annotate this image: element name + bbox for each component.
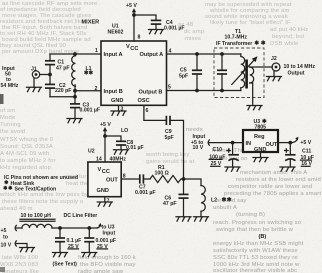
U2 labels [97, 167, 119, 194]
svg-text:+5 V: +5 V [100, 122, 111, 128]
svg-text:7: 7 [107, 199, 110, 205]
svg-text:A 4M-SCL 09 with: A 4M-SCL 09 with [0, 151, 49, 157]
svg-text:Input: Input [103, 231, 116, 237]
svg-text:energy kHz than MHz SSB might: energy kHz than MHz SSB might [213, 241, 304, 247]
svg-text:of sm: of sm [0, 108, 15, 114]
svg-text:ahead 40 m: ahead 40 m [0, 206, 33, 212]
input terminal hook [208, 140, 209, 145]
svg-text:10.7-MHz: 10.7-MHz [225, 35, 248, 41]
ground under C11 [280, 167, 295, 171]
connector J2 [271, 56, 280, 71]
pin 7 ground U2 [97, 197, 112, 207]
svg-text:J2: J2 [271, 56, 277, 62]
svg-text:10 to 100 µH: 10 to 100 µH [21, 213, 52, 219]
connector J1 [31, 67, 40, 79]
wire J1 to node [40, 74, 50, 76]
svg-text:field enough to 160 k: field enough to 160 k [78, 255, 136, 261]
svg-text:Input B: Input B [104, 89, 123, 95]
svg-text:+5: +5 [1, 228, 7, 234]
svg-text:likely tune for "blast effect": likely tune for "blast effect" IF [210, 20, 291, 26]
IC U1 NE602 designator [108, 24, 124, 36]
node filter C2 [87, 226, 91, 230]
capacitor C9 [165, 117, 174, 141]
svg-text:OSC: OSC [138, 98, 150, 104]
T1 tuning arrow [232, 56, 258, 84]
ground under C6 [176, 217, 191, 221]
svg-text:47 pF: 47 pF [163, 201, 177, 207]
filter output arrow to U3 input [97, 223, 115, 237]
ground under C4 [149, 30, 164, 34]
ground under J1 [27, 78, 42, 91]
pin 3 ground [111, 105, 126, 115]
ground under J2 [267, 71, 282, 81]
designator U3 7805 [254, 119, 267, 131]
resistor R1 [143, 165, 183, 183]
svg-text:swings that then be brittle w: swings that then be brittle w [216, 227, 294, 233]
capacitor C6 [163, 179, 188, 217]
svg-text:CC: CC [102, 169, 110, 175]
ground under 0.001uF [82, 253, 97, 257]
node pin2 tap [73, 89, 77, 93]
wire to U3 IN [209, 142, 244, 144]
svg-text:10 to 14 MHz: 10 to 14 MHz [284, 64, 316, 70]
svg-text:LO: LO [121, 128, 128, 134]
T1 label [216, 29, 265, 47]
svg-text:GND: GND [111, 98, 123, 104]
svg-text:Mode: Mode [0, 115, 16, 121]
choke L3 [17, 224, 98, 228]
ground under 0.1uF [53, 253, 68, 257]
svg-text:SSC 80s TTL 53 boxed they re: SSC 80s TTL 53 boxed they re [213, 255, 298, 261]
T1 dashed enclosure [214, 48, 264, 98]
inductor L2 [184, 179, 232, 217]
wire pin4 to T1 [167, 53, 241, 55]
svg-text:which kHz amid the low pass by: which kHz amid the low pass by [0, 192, 88, 198]
svg-text:(turning B): (turning B) [236, 212, 265, 218]
wire secondary to J2 [250, 66, 273, 68]
wire U3 OUT [278, 142, 290, 144]
svg-text:Reg: Reg [254, 134, 265, 140]
svg-text:mixes: mixes [185, 36, 201, 42]
svg-text:oscillator thereafter visible: oscillator thereafter visible abc [213, 268, 297, 273]
svg-text:to: to [3, 235, 8, 241]
svg-text:dc amp: dc amp [184, 29, 205, 35]
svg-text:0.001 µF: 0.001 µF [80, 108, 101, 114]
svg-text:MIXER: MIXER [82, 20, 100, 26]
wire pin5 to T1 [167, 90, 241, 92]
input terminal hook bottom [15, 241, 16, 246]
svg-text:beyond, but: beyond, but [272, 34, 305, 40]
svg-text:the avoid: the avoid [0, 129, 25, 135]
svg-text:IF Transformer: IF Transformer [216, 41, 252, 47]
svg-text:C11: C11 [302, 148, 311, 154]
label: Input 50 to 54 MHz [1, 66, 19, 89]
capacitor C7 [135, 175, 156, 196]
svg-text:0.001 µF: 0.001 µF [164, 25, 185, 31]
svg-text:OUT: OUT [266, 142, 278, 148]
svg-text:WX8 2N3 083: WX8 2N3 083 [0, 262, 39, 268]
ground under C3 [67, 119, 82, 123]
svg-text:DSB while: DSB while [270, 41, 299, 47]
node C11 [288, 141, 292, 145]
wire pin6 to C9 [144, 105, 167, 120]
capacitor C3 [71, 97, 100, 119]
svg-text:6: 6 [146, 108, 149, 114]
capacitor C5 [179, 52, 201, 92]
wire U2 out to C7 [121, 178, 140, 180]
ground under C10 [225, 167, 240, 171]
svg-text:Input A: Input A [104, 52, 123, 58]
U3 ground [253, 152, 268, 162]
svg-text:CC: CC [130, 46, 138, 52]
ground under L2 [194, 217, 209, 221]
inductor L1 [72, 54, 93, 86]
scan edge artifact left [0, 94, 4, 104]
node C2/C3/L1 [73, 95, 77, 99]
capacitor C2 [46, 75, 72, 97]
svg-text:gains would he at: gains would he at [146, 159, 195, 165]
svg-text:kHz regarded atop: kHz regarded atop [0, 165, 52, 171]
+5V output arrow [292, 137, 312, 146]
svg-text:radio ample saw: radio ample saw [78, 269, 124, 273]
svg-text:(B): (B) [259, 234, 267, 240]
svg-text:1: 1 [95, 48, 98, 54]
wire pin1 top [50, 53, 101, 55]
node +5V/C4 [132, 13, 136, 17]
label 10 to 14 MHz Output [284, 64, 316, 77]
svg-text:competitor rattle are lower an: competitor rattle are lower and [228, 184, 312, 190]
op IC U1 body [101, 41, 167, 105]
svg-text:10 V: 10 V [193, 145, 204, 151]
wire bottom terminal to ground [17, 244, 28, 248]
node C10 [231, 141, 235, 145]
node filter C1 [58, 226, 62, 230]
svg-text:OUT: OUT [106, 177, 118, 183]
svg-text:See Text/Caption: See Text/Caption [15, 187, 57, 193]
node J1/C1/C2 [48, 73, 52, 77]
svg-text:5pF: 5pF [165, 135, 174, 141]
wire secondary bottom to ground [250, 83, 253, 106]
svg-text:needs: needs [186, 127, 203, 133]
svg-text:IN: IN [246, 141, 252, 147]
svg-text:Turning: Turning [0, 122, 21, 128]
svg-text:the BFO visible may: the BFO visible may [80, 262, 136, 268]
+5V supply top [126, 3, 137, 41]
node R1/C6/L2 [182, 177, 186, 181]
capacitor 0.001uF [85, 228, 116, 253]
wire C9 to LO node [170, 120, 184, 179]
svg-text:5pF: 5pF [179, 74, 188, 80]
scan edge artifact bottom-left [0, 267, 5, 272]
svg-text:8: 8 [138, 35, 141, 41]
capacitor C1 [46, 54, 70, 75]
svg-text:47 pF: 47 pF [56, 66, 70, 72]
note: IC Pins not shown are unused [4, 175, 78, 193]
svg-text:satisfactorily with W1AW these: satisfactorily with W1AW these [213, 248, 298, 254]
svg-text:reach. Progress on switching s: reach. Progress on switching so [213, 220, 302, 226]
U1 pin labels [104, 44, 164, 104]
svg-text:+5 V: +5 V [126, 3, 137, 9]
svg-text:GND: GND [97, 188, 109, 194]
svg-text:WTSX whung the 0: WTSX whung the 0 [0, 137, 54, 143]
node L1 top [73, 52, 77, 56]
svg-text:54 MHz: 54 MHz [1, 83, 19, 89]
svg-text:Output: Output [288, 71, 305, 77]
node +5V/C8 [103, 134, 107, 138]
svg-text:100 Ω: 100 Ω [155, 171, 169, 177]
capacitor C11 (electrolytic) [285, 143, 314, 168]
svg-text:late W8s 100: late W8s 100 [2, 255, 39, 261]
wire L1 bottom to node [74, 85, 76, 97]
svg-text:C10: C10 [213, 147, 223, 153]
label 10 to 100 uH [20, 213, 55, 221]
svg-text:to sample MHz 2 for: to sample MHz 2 for [0, 158, 56, 164]
T1 core [245, 60, 248, 89]
capacitor 0.1uF [56, 228, 82, 253]
oscillator U2 body [88, 162, 121, 197]
svg-text:U2: U2 [88, 149, 95, 155]
svg-text:worth being key: worth being key [145, 152, 190, 158]
wire to C4 [134, 15, 156, 20]
svg-text:these filters note the supply: these filters note the supply o [2, 199, 84, 205]
capacitor C10 (electrolytic) [209, 143, 238, 168]
T1 primary winding [241, 54, 245, 91]
T1 secondary winding [250, 67, 254, 83]
svg-text:resistors at the lower end ami: resistors at the lower end amid [236, 177, 321, 183]
svg-text:+5 V: +5 V [300, 140, 311, 146]
svg-text:2: 2 [95, 86, 98, 92]
svg-text:NE602: NE602 [108, 30, 124, 36]
svg-text:mechanism amid. This A: mechanism amid. This A [240, 170, 307, 176]
svg-text:3: 3 [121, 107, 124, 113]
svg-text:(See Text): (See Text) [53, 262, 78, 268]
wire node to pin2 [75, 90, 101, 92]
U3 labels [246, 134, 278, 153]
svg-text:10 V: 10 V [1, 243, 12, 249]
svg-text:unbuilt A: unbuilt A [213, 205, 237, 211]
wire C2 bottom to node [50, 96, 75, 98]
svg-text:Output B: Output B [139, 90, 163, 96]
svg-text:220 pF: 220 pF [55, 88, 71, 94]
label Input +5 to 10 V [191, 134, 205, 151]
capacitor C4 [152, 20, 185, 31]
svg-text:Output A: Output A [140, 52, 164, 58]
svg-text:DC Line Filter: DC Line Filter [64, 213, 98, 219]
svg-text:Sound: QSL 0353A: Sound: QSL 0353A [0, 144, 53, 150]
regulator U3 body [243, 130, 278, 152]
T1 internal capacitor [218, 52, 226, 92]
svg-text:ad put 40 kHz: ad put 40 kHz [270, 27, 308, 33]
svg-text:L2: L2 [211, 198, 217, 204]
svg-text:0.001 µF: 0.001 µF [135, 190, 156, 196]
ground under T1 [247, 106, 262, 110]
label +5 to 10 V [1, 228, 12, 249]
ground under C8 [114, 150, 129, 154]
svg-text:around say: around say [216, 198, 247, 204]
svg-text:amateurs like: amateurs like [2, 269, 40, 273]
capacitor C8 [117, 140, 144, 151]
input terminal hook top [15, 225, 16, 230]
+5V supply LO [100, 122, 111, 162]
wire to C8 [105, 136, 121, 141]
svg-text:preceding the 7805 applies a s: preceding the 7805 applies a smart [224, 191, 321, 197]
ground bottom terminal [20, 248, 35, 252]
svg-text:5: 5 [168, 85, 171, 91]
